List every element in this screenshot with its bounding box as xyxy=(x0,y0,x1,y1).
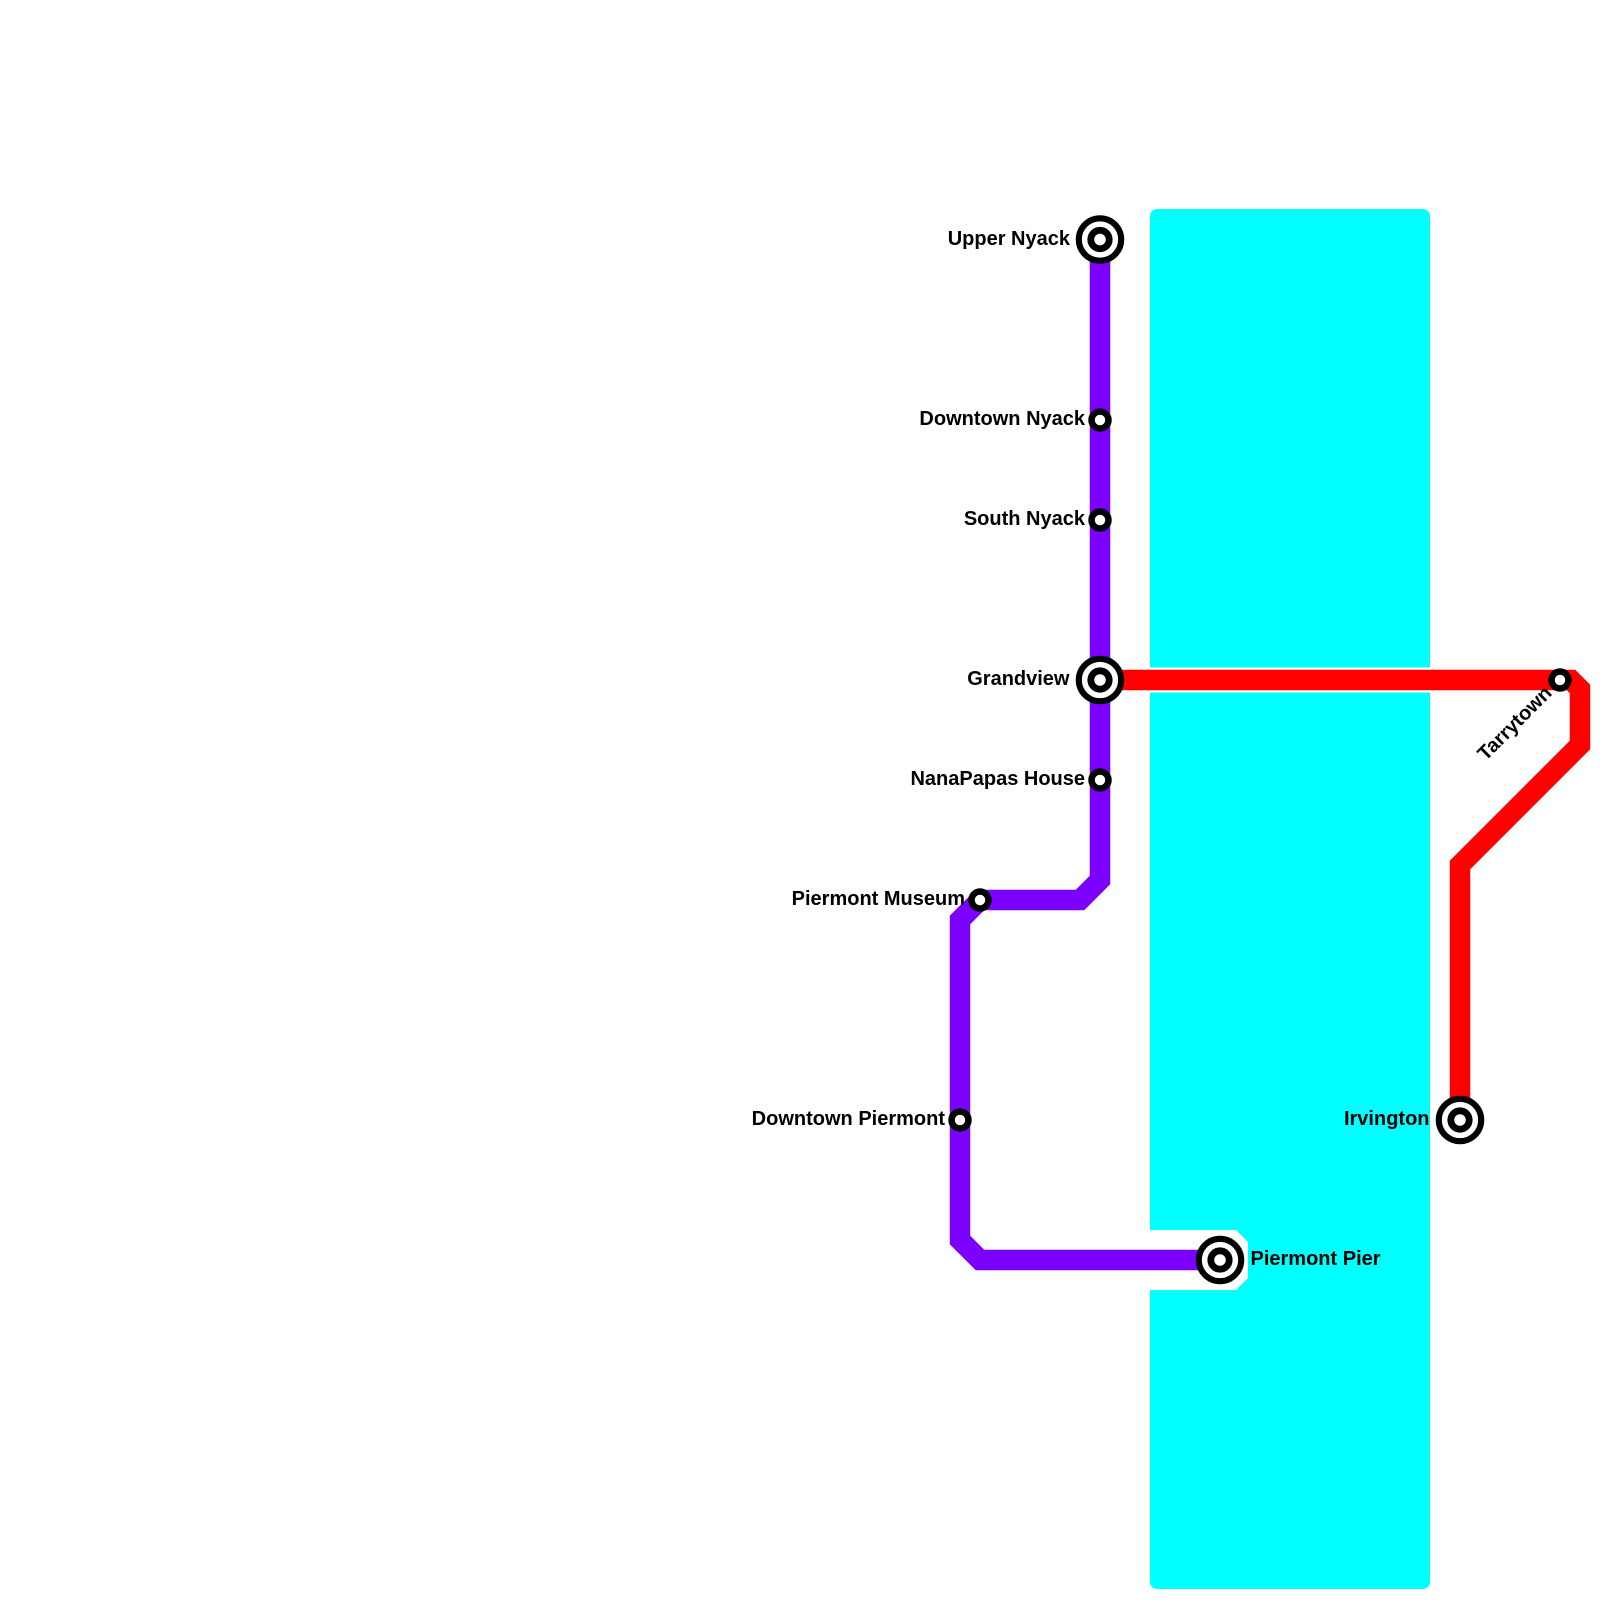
svg-text:Upper Nyack: Upper Nyack xyxy=(948,228,1071,250)
svg-text:Piermont Museum: Piermont Museum xyxy=(792,888,965,910)
purple line (Upper Nyack - Piermont Pier) xyxy=(960,239,1220,1260)
river gap at red line crossing xyxy=(1150,668,1430,693)
station Piermont Pier (transfer) xyxy=(1199,1239,1241,1281)
river notch around Piermont Pier xyxy=(1150,1230,1248,1290)
svg-text:Downtown Piermont: Downtown Piermont xyxy=(752,1108,946,1130)
station South Nyack xyxy=(1092,512,1109,529)
station Tarrytown xyxy=(1552,672,1569,689)
svg-text:South Nyack: South Nyack xyxy=(964,508,1086,530)
svg-text:Downtown Nyack: Downtown Nyack xyxy=(919,408,1085,430)
station NanaPapas House xyxy=(1092,772,1109,789)
station Grandview (transfer) xyxy=(1079,659,1121,701)
station Irvington (transfer) xyxy=(1439,1099,1481,1141)
red line (Grandview - Tarrytown - Irvington) xyxy=(1100,680,1580,1120)
svg-text:Irvington: Irvington xyxy=(1344,1108,1430,1130)
station Downtown Nyack xyxy=(1092,412,1109,429)
svg-text:Grandview: Grandview xyxy=(967,668,1070,690)
station Upper Nyack (transfer) xyxy=(1079,218,1121,260)
svg-text:NanaPapas House: NanaPapas House xyxy=(910,768,1085,790)
station Downtown Piermont xyxy=(952,1112,969,1129)
river (Hudson) cyan band xyxy=(1150,209,1430,1589)
station Piermont Museum xyxy=(972,892,989,909)
svg-text:Piermont Pier: Piermont Pier xyxy=(1251,1248,1381,1270)
